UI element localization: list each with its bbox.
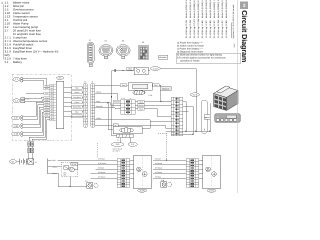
connector S3 oval 8-pin bbox=[116, 39, 130, 58]
svg-text:e) Illuminate element switch f: e) Illuminate element switch for light d… bbox=[177, 53, 223, 56]
svg-text:2.7.1: 2.7.1 bbox=[121, 97, 125, 100]
wire accessory box to lamp feed bbox=[69, 176, 71, 186]
wire label to connector B bbox=[82, 115, 83, 117]
stub to 2.2 label bbox=[129, 138, 131, 143]
metering pump 2.2 connector housing bbox=[113, 127, 142, 134]
main fuse 2.7 bbox=[28, 159, 34, 164]
wire control unit to harness label bbox=[64, 106, 72, 108]
wire lamp A feed stub bbox=[86, 183, 88, 187]
label 2.1 bbox=[57, 76, 64, 79]
svg-text:Grey: Grey bbox=[139, 107, 143, 110]
svg-text:sw: sw bbox=[51, 88, 53, 90]
pin table wire label boxes bbox=[44, 85, 50, 116]
inline connector strip B bbox=[83, 84, 87, 128]
optional dashed drop bbox=[166, 133, 168, 159]
water pump 2.10 body bbox=[128, 83, 152, 91]
svg-text:3: 3 bbox=[243, 3, 246, 8]
wire lamp B stub bbox=[163, 178, 165, 182]
indicator lamp A bbox=[87, 183, 99, 189]
wire 1.10 lead 2 bbox=[23, 110, 50, 128]
bracket line for block 2 bbox=[231, 23, 233, 39]
svg-text:2.10: 2.10 bbox=[149, 94, 153, 97]
stub block A row3 bbox=[135, 108, 137, 110]
wire pump drop joins 3.2.9 row1 bbox=[161, 101, 171, 103]
blower motor M1.1 symbol bbox=[21, 77, 24, 82]
svg-text:Green: Green bbox=[96, 91, 101, 94]
wire bottom rail 1 bbox=[166, 130, 211, 132]
relay circle symbol bbox=[70, 167, 75, 172]
svg-text:Model 10 (D10W) 12: Model 10 (D10W) 12 bbox=[221, 0, 224, 18]
wire label Red/White bbox=[113, 100, 120, 103]
wiring legend a-f bbox=[177, 41, 226, 62]
stub to 2.12 label bbox=[119, 138, 121, 143]
wire control unit to harness label bbox=[64, 111, 72, 113]
label 1.1 bbox=[13, 78, 20, 82]
connector illustration (isometric plug) bbox=[214, 86, 239, 111]
timer module A body bbox=[134, 155, 152, 189]
svg-text:Yellow: Yellow bbox=[52, 166, 58, 169]
svg-text:25-10 Wiring 0.5 SW: 25-10 Wiring 0.5 SW bbox=[189, 20, 192, 39]
wire control to main connector 2 bbox=[32, 120, 50, 142]
svg-text:Violet: Violet bbox=[111, 103, 114, 108]
control unit 2.1 body bbox=[56, 81, 63, 129]
harness wire label Green bbox=[72, 91, 83, 94]
wire connector pair link 1 bbox=[28, 146, 30, 148]
svg-text:Red: Red bbox=[122, 84, 125, 87]
legend left rule bbox=[2, 5, 5, 60]
wire harness A row bbox=[91, 177, 118, 179]
vehicle connector capsule outline bbox=[201, 100, 207, 133]
timer connector strip A bbox=[117, 159, 130, 188]
label 2.7.1 tag bbox=[71, 163, 78, 166]
connector F symbol bbox=[204, 115, 210, 120]
svg-text:Red: Red bbox=[75, 86, 78, 89]
wire relay out to harness bbox=[74, 165, 77, 170]
wire glow pin 1 bbox=[25, 97, 50, 99]
stub strip A to module A bbox=[130, 177, 134, 179]
svg-text:25-10 Wiring 2.5 RT: 25-10 Wiring 2.5 RT bbox=[213, 20, 216, 39]
svg-text:3.2.9: 3.2.9 bbox=[140, 189, 144, 192]
svg-text:Model 4 (D4W) 12 V: Model 4 (D4W) 12 V bbox=[185, 0, 188, 18]
svg-text:Blue/White: Blue/White bbox=[73, 106, 81, 109]
fuse 2.7.1 symbol bbox=[64, 166, 69, 169]
wire junction bbox=[69, 186, 70, 187]
label 1.2 bbox=[13, 99, 20, 103]
svg-text:10-10 Wiring 0.75 SW: 10-10 Wiring 0.75 SW bbox=[197, 19, 200, 39]
TOPRIGHT-TEXT bbox=[159, 0, 241, 63]
wire 1.10 lead 1 bbox=[23, 107, 50, 124]
block A out label Red bbox=[138, 100, 145, 103]
wire battery to fuse bbox=[26, 161, 28, 163]
svg-text:12 / 24 V: 12 / 24 V bbox=[113, 150, 121, 153]
wire label to connector B bbox=[82, 91, 83, 93]
stub strip B to module B bbox=[199, 164, 203, 166]
wire junction bbox=[195, 131, 196, 132]
stub strip A to module A bbox=[130, 173, 134, 175]
wire bottom rail 2 bbox=[171, 133, 193, 135]
indicator lamp B bbox=[161, 182, 172, 187]
wire connector to fuse 1 bbox=[28, 153, 30, 159]
TOPRIGHT-TEXT bbox=[0, 0, 1, 1]
content/sidebar divider line bbox=[237, 0, 240, 193]
stub 3.2.9 out 3 bbox=[183, 110, 189, 112]
svg-text:sw: sw bbox=[51, 109, 53, 111]
wire glow pin 2 bbox=[25, 100, 50, 102]
stub strip B to module B bbox=[199, 173, 203, 175]
wire label Red (pump +) bbox=[127, 67, 133, 70]
wire blower + to control pin bbox=[24, 78, 50, 85]
metering pump 2.2 connector label bbox=[113, 124, 118, 127]
connector S4 square 12-pin bbox=[139, 41, 149, 60]
svg-text:Model 10 (D10W) 12: Model 10 (D10W) 12 bbox=[201, 0, 204, 18]
wire spare row bbox=[26, 92, 50, 94]
wire blower - to control pin bbox=[24, 81, 50, 88]
svg-text:25-10 Wiring 1.0 BR: 25-10 Wiring 1.0 BR bbox=[201, 20, 204, 39]
svg-text:Model 10 (D10W) 24: Model 10 (D10W) 24 bbox=[205, 0, 208, 18]
wire harness A row bbox=[78, 164, 117, 166]
svg-text:a: a bbox=[130, 98, 131, 100]
timer module B body bbox=[203, 155, 221, 189]
wire label to battery bbox=[17, 161, 20, 163]
wire lead a to timer harness bbox=[58, 159, 96, 161]
module A label bbox=[138, 189, 147, 192]
svg-text:Brown/White: Brown/White bbox=[72, 115, 82, 118]
pin table label texts bbox=[45, 86, 50, 117]
wire harness B row bbox=[153, 159, 186, 161]
svg-text:0.5ge: 0.5ge bbox=[45, 97, 49, 99]
harness wire label Blue bbox=[72, 110, 83, 113]
wire junction bbox=[192, 134, 193, 135]
module B symbol circle 1 bbox=[206, 167, 211, 172]
wire pump to junction drop bbox=[159, 85, 161, 101]
wire S yellow to connector 3.2.9 bbox=[95, 120, 171, 122]
svg-text:2.7: 2.7 bbox=[35, 161, 37, 164]
stub strip A to module A bbox=[130, 168, 134, 170]
stub strip A to module A bbox=[130, 164, 134, 166]
wire 1.13 lead 2 bbox=[23, 115, 50, 135]
svg-text:Hydronic 10 / D 10 W 24 V all: Hydronic 10 / D 10 W 24 V all variants bbox=[232, 5, 235, 39]
svg-text:0.5gr: 0.5gr bbox=[45, 102, 49, 104]
svg-text:3.1.9: 3.1.9 bbox=[209, 189, 213, 192]
svg-text:20-10 Wiring 0.75 RT: 20-10 Wiring 0.75 RT bbox=[193, 19, 196, 39]
svg-text:10-10 Wiring 1.5 BR: 10-10 Wiring 1.5 BR bbox=[209, 20, 212, 39]
wire harness B row bbox=[153, 173, 186, 175]
wire control to main connector 1 bbox=[29, 117, 50, 141]
wire label to connector B bbox=[82, 101, 83, 103]
module B centerline bbox=[211, 156, 213, 188]
stub strip B to module B bbox=[199, 168, 203, 170]
svg-text:a) Power from battery “+”: a) Power from battery “+” bbox=[177, 41, 203, 44]
timer connector 3.2.9 block bbox=[171, 97, 183, 136]
pin table cell texts bbox=[51, 85, 53, 121]
heater unit boundary (dash-dot box) bbox=[12, 74, 71, 141]
wire S grey to block A row2 bbox=[95, 103, 121, 105]
label 1.10 bbox=[12, 124, 20, 128]
note label Hinweis bbox=[159, 55, 168, 59]
wire connector to fuse 2 bbox=[31, 153, 33, 159]
svg-text:2.7.1: 2.7.1 bbox=[72, 163, 76, 166]
svg-text:Hinweis: Hinweis bbox=[159, 56, 166, 59]
note box border bbox=[176, 53, 241, 63]
crossing junction symbol bbox=[114, 69, 117, 72]
legend entries bbox=[5, 0, 59, 64]
svg-text:10-10 Wiring 2.5 SW: 10-10 Wiring 2.5 SW bbox=[217, 20, 220, 39]
sidebar tab box bbox=[240, 1, 248, 9]
svg-text:Circuit Diagram: Circuit Diagram bbox=[240, 10, 249, 62]
wire metering pump out right bbox=[142, 121, 150, 128]
heater main connector pair bbox=[28, 142, 34, 153]
wire violet drop 2 to metering pump bbox=[112, 71, 117, 136]
svg-text:Model 5 (D5WS) 24: Model 5 (D5WS) 24 bbox=[197, 0, 200, 18]
svg-text:Red: Red bbox=[128, 68, 131, 71]
svg-text:Grey/Red: Grey/Red bbox=[73, 96, 80, 99]
svg-text:d) Diagnostic from heater: d) Diagnostic from heater bbox=[177, 50, 203, 53]
label 2.10 bbox=[150, 67, 160, 71]
SIDEBAR bbox=[238, 0, 250, 193]
svg-text:5.1: 5.1 bbox=[5, 60, 9, 64]
vehicle lead bracket bbox=[47, 158, 49, 174]
arrow up on violet wire bbox=[111, 95, 112, 97]
wire connector pair link 2 bbox=[31, 146, 33, 148]
svg-text:Model 4 (D4WSC) 12: Model 4 (D4WSC) 12 bbox=[213, 0, 216, 18]
svg-text:b) Switch control to heater: b) Switch control to heater bbox=[177, 44, 204, 47]
wire harness A row bbox=[96, 159, 118, 161]
svg-text:Green: Green bbox=[75, 91, 80, 94]
svg-text:0.5ws: 0.5ws bbox=[45, 107, 49, 109]
model variant rotated text block (top strings) bbox=[185, 0, 228, 18]
wire harness A row bbox=[91, 173, 118, 175]
harness wire label Blue/White bbox=[72, 105, 83, 108]
block A out label Brown bbox=[138, 104, 145, 107]
wire block A row3 to 3.2.9 bbox=[144, 109, 171, 117]
wire control unit to harness label bbox=[64, 91, 72, 93]
fuse holder illustration bbox=[215, 114, 240, 122]
module B label bbox=[207, 189, 216, 192]
wire block A row1 to 3.2.9 bbox=[144, 101, 171, 103]
label 5.1 bbox=[9, 160, 17, 164]
svg-text:Model 4 (D4WS) 24: Model 4 (D4WS) 24 bbox=[193, 0, 196, 18]
svg-text:25-10 Wiring 0.5 GR: 25-10 Wiring 0.5 GR bbox=[185, 20, 188, 39]
svg-text:Yellow: Yellow bbox=[96, 117, 102, 120]
block A out label Grey bbox=[138, 107, 145, 110]
svg-text:Optional: Optional bbox=[162, 88, 170, 91]
battery 5.1 symbol bbox=[20, 158, 26, 164]
wire label Red (pump -) bbox=[120, 84, 126, 87]
wire harness A row bbox=[96, 168, 118, 170]
harness wire label Red bbox=[72, 86, 83, 89]
module B symbol circle 2 bbox=[212, 172, 217, 177]
svg-text:Model 24 (D24W) 24: Model 24 (D24W) 24 bbox=[225, 0, 228, 18]
label 2.12 bbox=[111, 142, 124, 146]
metering pump plug hatch bbox=[117, 134, 134, 137]
svg-text:Model 24 (D24W) 24: Model 24 (D24W) 24 bbox=[209, 0, 212, 18]
label 1.5 bbox=[12, 116, 20, 120]
svg-text:20-10 Wiring 4.0 RT: 20-10 Wiring 4.0 RT bbox=[221, 20, 224, 39]
wire 1.5 lead 2 bbox=[23, 105, 50, 119]
optional dashed drop to harness A bbox=[96, 143, 98, 158]
water pump plug oval bbox=[133, 90, 145, 94]
module A symbol circle 2 bbox=[143, 172, 148, 177]
label 2.2 bbox=[128, 142, 137, 146]
inline connector strip S bbox=[91, 84, 95, 128]
wire violet drop 1 to metering pump bbox=[108, 103, 113, 130]
svg-text:Blue: Blue bbox=[75, 110, 78, 113]
optional dashed link bbox=[158, 132, 167, 134]
label 3.2.9 bbox=[190, 93, 199, 97]
svg-text:f) To vehicle ignition access: f) To vehicle ignition accessories for c… bbox=[177, 56, 226, 59]
wire connector to label 2.10 bbox=[148, 70, 150, 72]
harness wire label Grey/Red bbox=[72, 96, 83, 99]
wire label to connector B bbox=[82, 111, 83, 113]
svg-text:2.7: 2.7 bbox=[5, 28, 9, 32]
svg-text:Green: Green bbox=[75, 101, 80, 104]
module A symbol circle 1 bbox=[137, 167, 142, 172]
wire right riser bbox=[209, 103, 211, 131]
LEGEND-GROUP bbox=[1, 0, 59, 64]
wire fuse to relay bbox=[69, 168, 70, 170]
svg-text:Brown: Brown bbox=[52, 172, 57, 175]
lead stub a bbox=[48, 159, 52, 161]
wire junction bbox=[185, 131, 186, 132]
water pump inline connector 2-pin bbox=[134, 67, 148, 75]
svg-text:Grey: Grey bbox=[96, 100, 100, 103]
svg-text:10-10 Wiring 4.0 BR: 10-10 Wiring 4.0 BR bbox=[225, 20, 228, 39]
wire harness B row bbox=[153, 168, 186, 170]
wire control unit to harness label bbox=[64, 115, 72, 117]
stub strip B to module B bbox=[199, 159, 203, 161]
wire control unit to harness label bbox=[64, 101, 72, 103]
svg-text:Red: Red bbox=[139, 100, 142, 103]
wire 3.2.9 out 1 bbox=[183, 102, 186, 132]
wire label to connector B bbox=[82, 106, 83, 108]
wire junction bbox=[122, 70, 123, 71]
svg-text:operation of heater: operation of heater bbox=[180, 59, 200, 62]
module A centerline bbox=[141, 156, 143, 188]
lead stub c bbox=[48, 172, 52, 174]
wire junction bbox=[160, 101, 161, 102]
wire block A row2 to 3.2.9 bbox=[144, 104, 171, 106]
sensor 1.13 symbol bbox=[21, 132, 23, 137]
cable spec rotated text block (bottom strings) bbox=[185, 19, 228, 39]
wire pump feed from metering riser bbox=[112, 70, 135, 72]
inline connector block A (fuse block 2.7.1) bbox=[121, 100, 136, 114]
harness wire label Green bbox=[72, 101, 83, 104]
wire 1.5 lead 1 bbox=[23, 102, 50, 116]
svg-text:Red: Red bbox=[154, 84, 157, 87]
svg-text:Blue/Wh: Blue/Wh bbox=[96, 105, 102, 108]
wire harness B row bbox=[153, 164, 186, 166]
sensor 1.10 symbol bbox=[21, 124, 23, 129]
svg-text:Brown: Brown bbox=[139, 104, 144, 107]
stub block A row2 bbox=[135, 104, 137, 106]
wire harness B row bbox=[153, 177, 186, 179]
wire control unit to harness label bbox=[64, 96, 72, 98]
label 1.13 bbox=[12, 132, 20, 136]
wire 1.13 lead 1 bbox=[23, 112, 50, 132]
stub block A row1 bbox=[135, 101, 137, 103]
wire pump circuit to junction rail bbox=[160, 69, 196, 132]
svg-text:2.12: 2.12 bbox=[116, 143, 120, 146]
wire junction bbox=[166, 160, 167, 161]
wire junction bbox=[209, 131, 210, 132]
wire lead b to lamp bbox=[52, 166, 62, 168]
wire junction bbox=[107, 102, 108, 103]
wire label Red (pump out) bbox=[153, 84, 159, 87]
svg-text:Battery: Battery bbox=[13, 60, 22, 64]
svg-text:Red: Red bbox=[52, 159, 55, 162]
svg-text:Model 5 (D5WSC) 24: Model 5 (D5WSC) 24 bbox=[217, 0, 220, 18]
wire 3.2.9 out 2 bbox=[183, 106, 193, 134]
svg-text:EasyStart timer (24 V – Hydron: EasyStart timer (24 V – Hydronic 4/5 bbox=[13, 49, 59, 53]
glow pin 1.2 symbol bbox=[21, 98, 25, 103]
wire S bottom to connector 3.2.9 bbox=[95, 126, 171, 129]
stub strip B to module B bbox=[199, 177, 203, 179]
timer connector strip B bbox=[186, 159, 199, 188]
wire S green to block A row1 bbox=[95, 93, 121, 101]
control unit connector pin table bbox=[50, 84, 57, 120]
wire control unit to harness label bbox=[64, 87, 72, 89]
wire S blue/white to block A row3 bbox=[95, 107, 121, 110]
sensor 1.5 symbol bbox=[21, 116, 23, 121]
harness wire label Brown/White bbox=[72, 115, 83, 118]
wire label to connector B bbox=[82, 96, 83, 98]
label tag Optional bbox=[160, 87, 171, 91]
accessory dashed box bbox=[61, 162, 78, 176]
svg-text:Model 5 (D5W) 12 V: Model 5 (D5W) 12 V bbox=[189, 0, 192, 18]
lead stub b bbox=[48, 166, 52, 168]
wire label to connector B bbox=[82, 87, 83, 89]
connector S2 oval 8-pin bbox=[99, 39, 113, 58]
capsule inner mark bbox=[203, 129, 205, 131]
svg-text:c) Power from battery “–”: c) Power from battery “–” bbox=[177, 47, 203, 50]
MAIN-DIAGRAM bbox=[9, 67, 240, 193]
svg-text:2.2: 2.2 bbox=[131, 143, 134, 146]
wire lead c to accessory box bbox=[52, 173, 87, 187]
stub strip A to module A bbox=[130, 159, 134, 161]
svg-text:10-10 Wiring 1.5 RT: 10-10 Wiring 1.5 RT bbox=[205, 20, 208, 39]
CONNECTOR-ICONS bbox=[87, 39, 148, 67]
connector S1 capsule 14-pin bbox=[87, 39, 94, 67]
wire connector S to pump feed bbox=[95, 84, 128, 86]
